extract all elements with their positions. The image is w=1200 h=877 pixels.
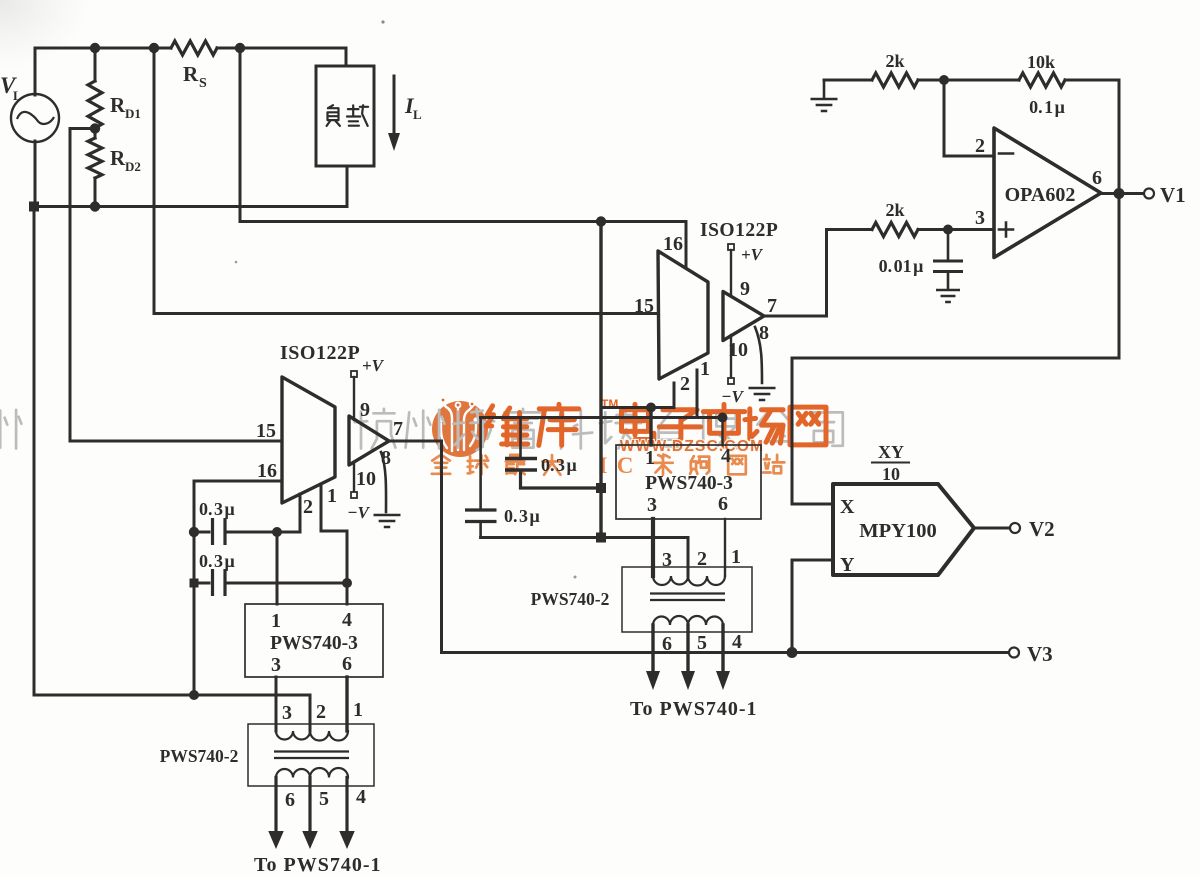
svg-text:6: 6 [662, 633, 672, 655]
svg-text:3: 3 [647, 494, 657, 516]
resistor R2 10k [944, 52, 1119, 87]
svg-text:4: 4 [732, 631, 742, 653]
svg-text:15: 15 [256, 420, 276, 442]
wire: sense line to ISO2 pin15 [154, 48, 658, 314]
svg-text:D2: D2 [125, 159, 141, 174]
node: return/cap junction [189, 690, 199, 700]
svg-text:2: 2 [975, 135, 985, 157]
wire: long vertical bus [599, 222, 602, 538]
transformer T2 PWS740-2 [531, 546, 752, 632]
DC/DC U2 PWS740-3 [245, 604, 383, 677]
speck [381, 20, 384, 23]
wire: VL top to top rail [34, 48, 37, 95]
svg-text:4: 4 [721, 445, 731, 467]
svg-text:+V: +V [362, 356, 385, 375]
svg-text:6: 6 [1092, 167, 1102, 189]
svg-text:Y: Y [840, 554, 855, 576]
T1 primary winding [276, 731, 348, 741]
node: inverting input junction [939, 75, 949, 85]
pin 15 (U1) [70, 420, 282, 442]
T1 secondary winding [276, 768, 348, 777]
T2 core [650, 594, 725, 601]
svg-text:R: R [110, 93, 126, 117]
terminal V1 [1144, 183, 1186, 207]
pin 1 (U1) [321, 484, 347, 604]
svg-text:1: 1 [327, 485, 337, 507]
wire: U1 pin8 to ground [381, 452, 386, 512]
svg-text:D1: D1 [125, 106, 141, 121]
wire: U3 pin7 to OPA input [764, 230, 827, 317]
node: C1 ends [189, 527, 199, 537]
svg-text:+V: +V [741, 245, 764, 264]
svg-text:L: L [413, 107, 422, 122]
svg-text:3: 3 [282, 702, 292, 724]
svg-text:ISO122P: ISO122P [280, 342, 360, 364]
svg-text:L: L [13, 88, 22, 103]
watermark: slogan line 全球最大IC采购网站 [432, 453, 785, 478]
svg-text:10: 10 [882, 464, 900, 484]
wire: VL bottom rail [34, 141, 347, 207]
node: Y tap on V3 rail [787, 647, 798, 658]
svg-text:7: 7 [393, 418, 403, 440]
ground (U3) [749, 388, 776, 400]
svg-text:PWS740-3: PWS740-3 [270, 633, 358, 654]
node: output/feedback junction [1114, 188, 1125, 199]
svg-text:MPY100: MPY100 [859, 520, 936, 542]
svg-text:10k: 10k [1027, 52, 1055, 72]
svg-text:1: 1 [731, 546, 741, 568]
svg-text:PWS740-3: PWS740-3 [645, 473, 733, 494]
op-amp U6 OPA602 [994, 128, 1101, 258]
wire: RS right to ISO2 pin16 feed [240, 48, 686, 268]
node: junction dots on top rail [90, 43, 100, 53]
isolation amp U1 input block [282, 377, 335, 503]
capacitor C1 0.3u [194, 499, 300, 545]
node: rail to U4 pin4 [718, 413, 728, 423]
node: bus bottom [596, 533, 606, 543]
pin 1 (U3) [697, 358, 710, 418]
svg-text:10: 10 [728, 339, 748, 361]
svg-text:R: R [183, 62, 199, 86]
node: filter junction [943, 225, 953, 235]
svg-text:9: 9 [360, 399, 370, 421]
node: U3 pin2/box junction [646, 403, 656, 413]
resistor RD2 [88, 129, 141, 179]
resistor RD1 [88, 48, 141, 128]
wire: R1/R2 node to pin 2 [944, 80, 994, 156]
resistor R1 2k [824, 51, 944, 87]
svg-text:1: 1 [645, 447, 655, 469]
pin 10 (U1) [354, 462, 376, 492]
DC/DC U4 PWS740-3 [616, 445, 761, 519]
svg-text:0. 3 μ: 0. 3 μ [199, 551, 235, 571]
svg-text:15: 15 [634, 295, 654, 317]
-V terminal (U3) [721, 378, 744, 406]
svg-text:16: 16 [663, 233, 683, 255]
ground (U1) [374, 515, 401, 527]
isolation amp U3 input block [658, 251, 708, 379]
wire: X input drop [792, 358, 833, 504]
node: C3 to bus [596, 483, 606, 493]
wire: U2 pin6 to transformer [345, 677, 348, 731]
-V terminal (U1) [347, 492, 370, 522]
svg-text:XY: XY [878, 442, 904, 462]
load box 负载 [316, 66, 374, 166]
wire: +supply rail [481, 416, 723, 419]
svg-text:0. 3 μ: 0. 3 μ [504, 506, 540, 526]
svg-text:5: 5 [319, 788, 329, 810]
svg-text:16: 16 [257, 460, 277, 482]
node: RD1/RD2 tap [90, 123, 100, 133]
svg-text:V3: V3 [1027, 642, 1053, 666]
svg-text:WWW.DZSC.COM: WWW.DZSC.COM [620, 438, 764, 455]
svg-text:3: 3 [271, 654, 281, 676]
pin 2 (U1) [300, 494, 313, 532]
svg-text:6: 6 [718, 493, 728, 515]
T2 secondary winding [653, 616, 723, 625]
wire: return rail into transformer pin2 [309, 695, 312, 731]
resistor R3 2k (non-inverting input) [827, 200, 995, 237]
wire: Y input from V3 rail [792, 560, 833, 653]
svg-text:10: 10 [356, 468, 376, 490]
svg-text:V1: V1 [1160, 183, 1186, 207]
svg-text:2k: 2k [885, 200, 904, 220]
wire: U5 output [974, 527, 1010, 530]
T1 output leads with arrows [268, 778, 366, 850]
svg-text:PWS740-2: PWS740-2 [531, 589, 610, 609]
wire: load top [345, 48, 348, 66]
capacitor C5 0.01u [879, 230, 963, 290]
pin 16 (U1) [194, 460, 282, 482]
wire: load bottom [346, 166, 349, 207]
current arrow IL [388, 76, 422, 151]
svg-text:7: 7 [767, 295, 777, 317]
svg-text:To PWS740-1: To PWS740-1 [630, 698, 758, 720]
pin 2 (U3) [601, 373, 690, 408]
svg-text:3: 3 [975, 207, 985, 229]
svg-text:9: 9 [740, 278, 750, 300]
svg-text:To PWS740-1: To PWS740-1 [254, 854, 382, 876]
svg-text:C: C [617, 453, 634, 478]
wire: U6 output [1101, 192, 1144, 195]
output triangle (U1) [349, 416, 389, 465]
svg-text:V2: V2 [1029, 517, 1055, 541]
wire: U3 pin8 to ground [755, 327, 762, 383]
+V terminal (U1) [351, 356, 385, 420]
AC source VL [0, 73, 59, 142]
wire: to U4 pin1 [649, 408, 652, 446]
svg-text:6: 6 [342, 653, 352, 675]
ground (C5) [936, 290, 960, 302]
svg-text:2k: 2k [885, 51, 904, 71]
svg-text:2: 2 [697, 548, 707, 570]
svg-text:X: X [840, 496, 855, 518]
svg-text:6: 6 [285, 789, 295, 811]
svg-text:0. 3 μ: 0. 3 μ [541, 455, 577, 475]
node: pin16 rail junction [596, 216, 606, 226]
capacitor C4 0.3u [465, 418, 540, 538]
svg-text:5: 5 [697, 632, 707, 654]
node: C2 ends [190, 579, 199, 588]
terminal V2 [1010, 517, 1055, 541]
svg-text:ISO122P: ISO122P [700, 220, 778, 241]
svg-text:1: 1 [271, 610, 281, 632]
svg-text:0. 3 μ: 0. 3 μ [199, 499, 235, 519]
wire: left drop to transformer return [34, 207, 310, 696]
multiplier U5 MPY100 [833, 484, 974, 576]
watermark: orange site name 维库电子市场网 + TM [486, 397, 826, 446]
svg-text:2: 2 [680, 373, 690, 395]
terminal V3 [1009, 642, 1053, 666]
wire: cap bus to transformer pin2 [481, 538, 688, 577]
wire: U2 pin3 to transformer [275, 677, 278, 731]
wire: U4 pin6 to transformer [724, 519, 726, 576]
wire: U4 pin3 to transformer [651, 519, 655, 576]
+V terminal (U3) [728, 244, 764, 296]
watermark: gray company name 杭州将睿科技有限公司 [0, 409, 843, 450]
svg-text:PWS740-2: PWS740-2 [160, 746, 239, 766]
capacitor C3 0.3u [505, 418, 601, 489]
svg-text:1: 1 [353, 699, 363, 721]
svg-text:2: 2 [316, 701, 326, 723]
capacitor C2 0.3u [194, 551, 347, 596]
svg-text:4: 4 [342, 609, 352, 631]
svg-text:2: 2 [303, 496, 313, 518]
wire: V1 feedback to X input [792, 357, 1119, 360]
watermark: orange logo circle [432, 397, 488, 457]
T1 core [274, 752, 349, 759]
node: RD2 bottom [90, 201, 100, 211]
wire: U1 pin7 output to V3 rail [389, 441, 1013, 653]
svg-text:0. 01 μ: 0. 01 μ [879, 256, 924, 276]
svg-text:OPA602: OPA602 [1005, 184, 1076, 206]
wire: box pin1 feed [276, 532, 279, 604]
output triangle (U3) [723, 292, 764, 341]
pin 10 (U3) [728, 335, 748, 378]
T2 primary winding [653, 576, 725, 586]
ground (input divider) [811, 80, 838, 111]
resistor RS [171, 41, 217, 91]
svg-text:R: R [110, 146, 126, 170]
svg-text:4: 4 [356, 786, 366, 808]
label: XY/10 transfer function [872, 442, 909, 484]
node: VL bottom junction [29, 202, 39, 212]
wire: tap to pin15 feed [70, 129, 95, 442]
T2 output leads with arrows [646, 625, 742, 690]
svg-text:−V: −V [347, 503, 370, 522]
svg-text:S: S [199, 76, 207, 91]
svg-text:3: 3 [662, 549, 672, 571]
svg-text:0. 1 μ: 0. 1 μ [1029, 97, 1065, 117]
svg-text:−V: −V [721, 387, 744, 406]
wire: top rail [35, 47, 346, 50]
transformer T1 PWS740-2 [160, 699, 374, 786]
wire: feedback right vertical [1118, 80, 1121, 358]
svg-text:1: 1 [700, 358, 710, 380]
wire: cap bus vertical [193, 481, 196, 695]
